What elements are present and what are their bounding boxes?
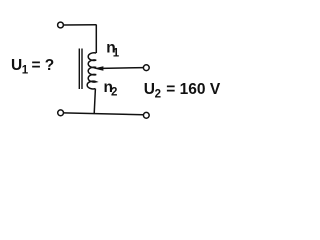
label n1 [106, 40, 120, 60]
terminal bottom-left [58, 110, 64, 116]
svg-text:U: U [11, 57, 22, 74]
transformer winding n1+n2 (autotransformer coil) [87, 53, 96, 89]
label U2 = 160 V [144, 81, 221, 101]
terminal bottom-right [143, 112, 149, 118]
label U1 = ? [11, 57, 54, 77]
svg-text:= 160 V: = 160 V [166, 81, 221, 98]
terminal tap right [143, 65, 149, 71]
terminal top-left [58, 22, 64, 28]
svg-text:1: 1 [113, 47, 120, 59]
svg-text:?: ? [45, 57, 54, 74]
tap arrow head (points at winding tap) [94, 66, 104, 71]
svg-text:2: 2 [111, 86, 117, 98]
label n2 [104, 79, 118, 98]
svg-text:=: = [32, 57, 41, 74]
svg-text:1: 1 [22, 65, 29, 77]
svg-text:2: 2 [155, 88, 161, 100]
svg-text:U: U [144, 81, 155, 98]
wire top horizontal [64, 24, 97, 26]
wire tap to right terminal [102, 67, 143, 70]
wire right vertical to winding [95, 25, 97, 53]
wire bottom vertical from winding [94, 89, 95, 114]
wire bottom horizontal [64, 113, 144, 115]
transformer core (two parallel bars) [79, 49, 82, 90]
